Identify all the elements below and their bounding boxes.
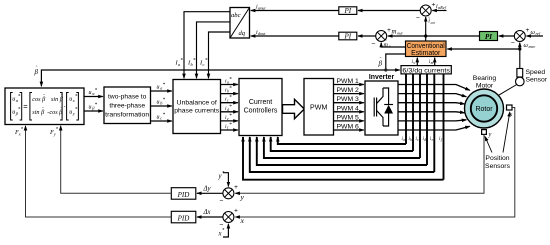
wire u_a* two-phase to unbalance <box>151 82 172 91</box>
svg-text:a: a <box>403 138 405 142</box>
svg-text:PWM 2: PWM 2 <box>337 87 359 94</box>
wire y* reference stub into J4 <box>218 171 229 187</box>
svg-text:Unbalance of: Unbalance of <box>177 99 217 106</box>
svg-text:*: * <box>205 58 208 64</box>
wire J1 to PI top <box>358 10 421 12</box>
svg-text:dq: dq <box>239 30 246 37</box>
svg-text:Controllers: Controllers <box>244 108 278 115</box>
svg-text:u: u <box>157 100 160 106</box>
svg-text:ref: ref <box>536 31 541 36</box>
vertical current tap wires through 6/3/dq block <box>406 74 444 180</box>
svg-text:*: * <box>75 107 78 113</box>
svg-text:+: + <box>432 2 436 9</box>
wire i_alpha_out PI top to abc/dq <box>251 5 339 11</box>
IGBT with diode symbol <box>374 88 393 126</box>
svg-text:*: * <box>95 102 98 108</box>
svg-text:three-phase: three-phase <box>109 103 145 110</box>
wire beta-hat bus from estimator to matrix block <box>41 54 405 86</box>
wires I_a* I_b* I_c* abc/dq to unbalance block <box>184 12 230 79</box>
svg-text:x: x <box>218 231 222 238</box>
current feedback loop wires to current controllers <box>243 137 444 180</box>
svg-text:*: * <box>163 97 166 103</box>
svg-text:−: − <box>416 15 420 22</box>
wire F_x* PID bottom output to matrix block <box>14 126 171 217</box>
6/3/dq currents block <box>401 66 451 75</box>
svg-text:+: + <box>234 208 238 215</box>
svg-text:PID: PID <box>177 214 190 222</box>
summing junction m (J2) <box>372 27 392 48</box>
svg-text:abc: abc <box>231 12 241 19</box>
bearing motor label <box>473 75 497 89</box>
svg-text:PWM 5: PWM 5 <box>337 114 359 121</box>
PI block top <box>339 7 357 15</box>
svg-text:6/3/dq currents: 6/3/dq currents <box>402 67 450 74</box>
svg-text:y: y <box>488 131 492 138</box>
svg-text:*: * <box>229 77 232 83</box>
svg-text:=: = <box>23 102 28 111</box>
svg-text:Conventional: Conventional <box>407 43 445 50</box>
wires inverter to motor (6 phase lines) <box>398 85 470 131</box>
position sensor y <box>482 130 492 138</box>
wire F_y* PID top output to matrix block <box>49 126 171 193</box>
svg-text:out: out <box>397 31 403 36</box>
svg-text:Speed: Speed <box>526 69 546 76</box>
svg-text:*: * <box>163 112 166 118</box>
svg-text:dout: dout <box>258 31 266 36</box>
svg-text:Rotor: Rotor <box>475 106 493 113</box>
svg-text:Bearing: Bearing <box>473 75 497 82</box>
svg-text:Motor: Motor <box>476 82 494 89</box>
svg-text:Current: Current <box>249 99 272 106</box>
wire delta-y J4 to PID top <box>197 186 223 194</box>
svg-text:*: * <box>229 122 232 128</box>
svg-text:PWM: PWM <box>310 104 327 112</box>
svg-text:m: m <box>392 29 397 36</box>
wire y feedback sensor to J4 <box>235 134 484 201</box>
current controllers block <box>239 79 282 136</box>
PWM block <box>304 79 334 136</box>
svg-text:Δx: Δx <box>203 209 211 216</box>
block arrow current controllers to PWM <box>283 99 305 118</box>
svg-text:*: * <box>229 95 232 101</box>
svg-text:*: * <box>229 104 232 110</box>
wire i_hat_c_alpha estimator top to J1 <box>426 17 436 41</box>
svg-text:*: * <box>163 82 166 88</box>
position sensors label and pointer lines <box>485 112 511 170</box>
junction dot beta bus <box>384 68 387 71</box>
wire i_d_out PI middle to abc/dq <box>251 30 339 36</box>
svg-text:PID: PID <box>177 191 190 199</box>
svg-text:*: * <box>180 58 183 64</box>
svg-text:αRef: αRef <box>438 5 447 10</box>
svg-text:u: u <box>89 90 92 96</box>
svg-text:PI: PI <box>485 33 492 41</box>
svg-text:Estimator: Estimator <box>411 50 441 57</box>
summing junction omega (J3) <box>511 27 530 47</box>
svg-text:b: b <box>410 138 412 142</box>
svg-text:m: m <box>431 61 434 65</box>
PI block middle <box>339 32 357 40</box>
wire omega_mec speed sensor up to J3 and tee into estimator <box>447 42 535 68</box>
svg-text:*: * <box>229 113 232 119</box>
summing junction i_alpha (J1) <box>416 2 436 23</box>
PI block green (speed controller) <box>480 32 498 41</box>
wire u_beta* matrix to two-phase <box>84 102 103 111</box>
summing junction y (J4) <box>220 184 239 205</box>
svg-text:Δy: Δy <box>203 186 212 193</box>
svg-text:+: + <box>526 27 530 34</box>
svg-text:−: − <box>511 40 515 47</box>
svg-text:*: * <box>229 86 232 92</box>
wire omega_ref stub into J3 <box>527 29 544 36</box>
svg-text:αout: αout <box>258 6 266 11</box>
svg-text:Inverter: Inverter <box>369 74 395 81</box>
PID block bottom <box>171 211 196 223</box>
wire m_out green PI to J2 <box>388 29 480 38</box>
transformation matrix block <box>5 88 84 125</box>
two-phase to three-phase transformation block <box>104 87 151 124</box>
wires PWM1..PWM6 to inverter <box>334 85 364 131</box>
wire u_b* two-phase to unbalance <box>151 97 172 106</box>
svg-text:PI: PI <box>343 33 351 41</box>
svg-text:transformation: transformation <box>105 112 149 119</box>
svg-text:mec: mec <box>529 44 536 49</box>
svg-text:−: − <box>372 41 376 48</box>
svg-text:−: − <box>220 198 224 205</box>
wire J2 to PI middle <box>358 35 376 37</box>
wire x feedback sensor to J5 <box>235 108 515 226</box>
speed sensor <box>499 69 548 96</box>
svg-text:u: u <box>89 105 92 111</box>
svg-text:PWM 4: PWM 4 <box>337 105 359 112</box>
svg-text:y: y <box>240 193 245 202</box>
rotor inner circle <box>471 95 497 121</box>
wire m_hat estimator to J2 <box>381 41 405 49</box>
svg-text:PWM 6: PWM 6 <box>337 124 359 131</box>
svg-text:Sensors: Sensors <box>485 163 511 170</box>
node labels i_a..i_f on tap wires <box>402 137 443 142</box>
svg-text:+: + <box>387 27 391 34</box>
wire delta-x J5 to PID bottom <box>197 209 223 217</box>
svg-text:*: * <box>75 94 78 100</box>
svg-text:x: x <box>240 216 245 225</box>
svg-text:Position: Position <box>485 155 509 162</box>
wire J3 to green PI <box>499 35 515 37</box>
wire i_m from 6/3/dq block up to estimator <box>429 58 435 66</box>
svg-text:*: * <box>193 58 196 64</box>
wire u_alpha* matrix to two-phase <box>84 88 103 97</box>
inverter block <box>365 74 398 135</box>
bearing motor outer circle <box>465 75 504 128</box>
svg-text:phase currents: phase currents <box>174 108 220 115</box>
svg-text:*: * <box>95 88 98 94</box>
conventional estimator block <box>406 41 447 57</box>
summing junction x (J5) <box>220 208 239 229</box>
svg-text:·: · <box>64 102 67 111</box>
svg-text:*: * <box>18 107 21 113</box>
PID block top <box>171 188 196 200</box>
svg-text:u: u <box>157 115 160 121</box>
wire u_c* two-phase to unbalance <box>151 112 172 121</box>
abc/dq transformation block <box>230 8 250 39</box>
wire i_s from 6/3/dq block up to estimator <box>412 58 418 66</box>
svg-text:PI: PI <box>343 7 351 15</box>
svg-text:two-phase to: two-phase to <box>108 94 147 101</box>
svg-text:Sensor: Sensor <box>526 77 548 84</box>
svg-text:PWM 3: PWM 3 <box>337 96 359 103</box>
svg-text:+: + <box>234 184 238 191</box>
svg-text:d: d <box>424 138 426 142</box>
position sensor x <box>507 105 513 118</box>
wire x* reference stub into J5 <box>218 224 229 238</box>
wires i1*..i6* unbalance to current controllers <box>221 85 238 131</box>
svg-text:*: * <box>18 94 21 100</box>
svg-text:u: u <box>157 85 160 91</box>
wire i_alphaRef stub into J1 <box>432 4 446 11</box>
svg-text:PWM 1: PWM 1 <box>337 78 359 85</box>
unbalance of phase currents block <box>173 80 221 134</box>
